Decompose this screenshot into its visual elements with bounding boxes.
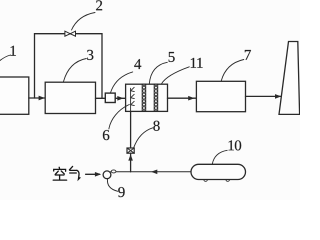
label 2: [96, 0, 102, 10]
leader to label 7: [221, 60, 244, 82]
chimney stack: [279, 42, 300, 115]
reactor box: [126, 84, 168, 111]
wire air inlet: [86, 173, 100, 175]
leader to label 3: [64, 59, 87, 82]
leader to label 11: [162, 67, 190, 84]
spray pipe 6: [131, 87, 135, 111]
catalyst band 11: [154, 84, 158, 111]
char qi: [69, 166, 80, 179]
label 7: [245, 50, 251, 60]
tank feet: [204, 180, 208, 182]
catalyst band 5: [142, 84, 146, 111]
pipe reactor down to valve 8: [130, 111, 132, 148]
arrow into box3: [39, 96, 45, 101]
arrow into reactor: [117, 96, 123, 101]
arrow into chimney: [275, 94, 281, 99]
label 1: [11, 46, 16, 56]
leader to label 9: [107, 179, 117, 191]
label 6: [103, 130, 109, 140]
leader to label 5: [149, 62, 167, 84]
valve 2: [65, 31, 76, 36]
label 3: [87, 50, 93, 60]
blower 9: [103, 171, 111, 179]
injector 4: [105, 93, 115, 102]
arrow into blower: [95, 172, 101, 177]
box 7: [196, 81, 245, 111]
arrow up into valve 8: [128, 154, 133, 160]
leader to label 1: [0, 55, 11, 61]
wire reactor to box7: [168, 97, 197, 99]
label 8: [153, 121, 159, 131]
box 1: [0, 77, 29, 114]
leader to label 8: [134, 128, 153, 148]
leader to label 6: [109, 105, 129, 129]
leader to label 10: [212, 150, 227, 164]
wire box7 to chimney: [246, 95, 281, 97]
text 空气 (air) hand-drawn: [53, 166, 80, 180]
valve 8: [127, 148, 134, 153]
label 4: [134, 59, 141, 69]
box 3: [45, 82, 95, 113]
label 10: [229, 140, 242, 150]
wire box1 to box3: [29, 97, 45, 99]
arrow into box7: [188, 96, 194, 101]
tank 10: [191, 164, 246, 179]
label 11: [191, 58, 203, 68]
label 9: [118, 187, 124, 197]
wire box3 to reactor: [96, 97, 126, 99]
leader to label 2: [72, 13, 96, 31]
label 5: [169, 52, 175, 62]
wire bypass loop: [35, 34, 103, 99]
leader to label 4: [111, 72, 133, 93]
pipe air riser: [130, 153, 132, 172]
arrow from tank leftward: [151, 170, 157, 175]
char kong: [53, 167, 66, 180]
